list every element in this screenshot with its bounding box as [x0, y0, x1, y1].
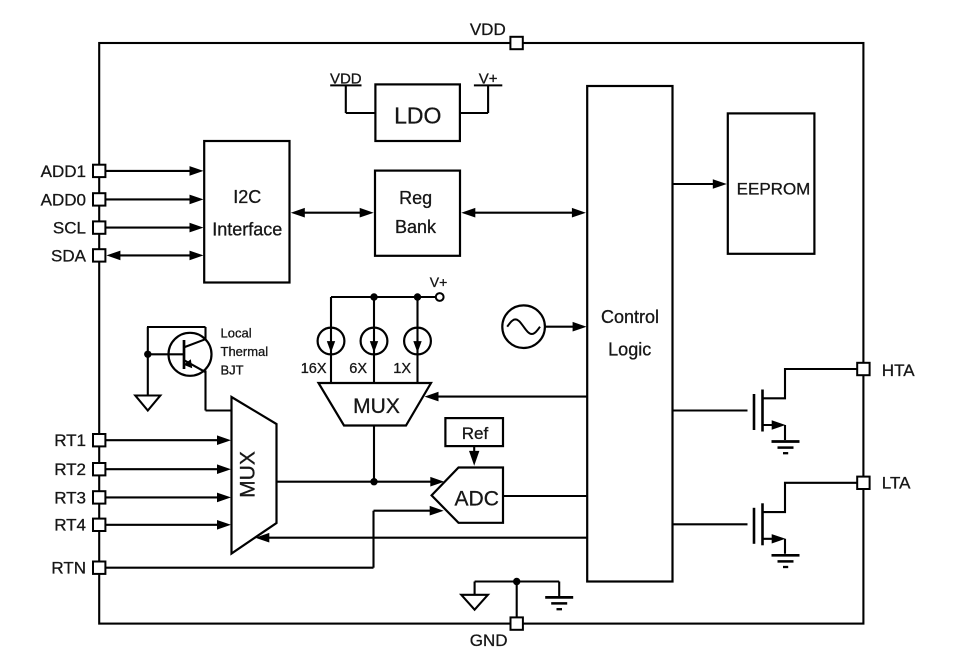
svg-text:RTN: RTN	[51, 559, 86, 578]
svg-text:RT3: RT3	[54, 488, 86, 507]
label Local Thermal BJT	[221, 326, 269, 378]
current source 1X	[393, 328, 431, 377]
wire Ref to ADC	[469, 446, 479, 466]
oscillator OSC1	[502, 305, 545, 348]
current source 6X	[349, 328, 387, 377]
block LDO U1	[375, 84, 460, 141]
svg-text:V+: V+	[430, 274, 448, 290]
wire SCL to I2C	[106, 223, 204, 233]
pin RT2	[54, 460, 105, 479]
block EEPROM U5	[728, 113, 815, 253]
svg-text:EEPROM: EEPROM	[737, 180, 811, 199]
svg-text:MUX: MUX	[353, 395, 400, 418]
svg-text:1X: 1X	[393, 361, 411, 377]
block I2C Interface U2	[204, 141, 289, 283]
svg-text:RT1: RT1	[54, 431, 86, 450]
svg-text:Local: Local	[221, 326, 252, 341]
wire RT4 to input MUX	[106, 520, 231, 530]
block gain MUX U6	[319, 383, 432, 426]
pin SDA	[51, 246, 105, 265]
pin ADD1	[41, 162, 106, 181]
chip boundary	[99, 43, 863, 624]
svg-text:ADC: ADC	[455, 487, 499, 510]
svg-text:16X: 16X	[301, 361, 327, 377]
svg-text:SCL: SCL	[53, 219, 86, 238]
wire RT3 to input MUX	[106, 493, 231, 503]
pin GND	[470, 617, 523, 650]
svg-text:LDO: LDO	[394, 103, 441, 129]
block Ref U8	[445, 418, 503, 446]
svg-text:HTA: HTA	[882, 361, 915, 380]
ground (chassis)	[545, 582, 573, 610]
svg-text:LTA: LTA	[882, 474, 911, 493]
svg-text:RT2: RT2	[54, 460, 86, 479]
pin ADD0	[41, 190, 106, 209]
wire Control Logic to EEPROM	[673, 179, 727, 189]
svg-text:6X: 6X	[349, 361, 367, 377]
svg-text:VDD: VDD	[470, 20, 506, 39]
svg-text:MUX: MUX	[237, 451, 260, 498]
svg-text:Control: Control	[601, 307, 659, 327]
wire oscillator to Control Logic	[545, 322, 587, 332]
block Reg Bank U3	[375, 171, 460, 256]
wire I2C to Reg Bank (bidirectional)	[291, 208, 374, 218]
wire RTN to ADC	[106, 506, 444, 568]
svg-text:I2C: I2C	[233, 187, 261, 207]
svg-text:BJT: BJT	[221, 363, 244, 378]
pin RT3	[54, 488, 105, 507]
svg-text:Thermal: Thermal	[221, 344, 269, 359]
wire RT2 to input MUX	[106, 464, 231, 474]
svg-text:Interface: Interface	[212, 219, 282, 239]
wire ADD0 to I2C	[106, 195, 204, 205]
wire SDA to I2C	[106, 251, 203, 261]
block input MUX U7	[232, 397, 277, 554]
svg-text:ADD0: ADD0	[41, 190, 86, 209]
current source 16X	[301, 328, 345, 377]
pin VDD	[470, 20, 523, 49]
wire gain MUX to ADC node	[276, 426, 444, 487]
wire Reg Bank to Control Logic (bidirectional)	[461, 208, 586, 218]
wire Control Logic to input MUX	[255, 533, 587, 543]
pin LTA	[857, 474, 911, 493]
pin HTA	[857, 361, 915, 380]
wire Control Logic to gain MUX	[425, 392, 588, 402]
pin SCL	[53, 219, 105, 238]
svg-text:Ref: Ref	[462, 424, 489, 443]
svg-text:Bank: Bank	[395, 217, 437, 237]
terminal V+ (LDO output)	[460, 70, 502, 113]
terminal VDD (LDO input)	[330, 70, 375, 113]
svg-text:ADD1: ADD1	[41, 162, 86, 181]
wire RT1 to input MUX	[106, 435, 231, 445]
pin RT4	[54, 516, 105, 535]
pin RT1	[54, 431, 105, 450]
svg-text:SDA: SDA	[51, 246, 87, 265]
node V+ current bus	[331, 274, 447, 383]
svg-text:RT4: RT4	[54, 516, 86, 535]
wire ADC to Control Logic	[503, 495, 587, 497]
block ADC U9	[432, 468, 503, 523]
svg-text:GND: GND	[470, 631, 508, 650]
node analog ground junction	[475, 578, 560, 618]
ground (signal, open triangle)	[461, 582, 488, 610]
transistor Q3 LTA driver with ground	[673, 483, 858, 567]
block Control Logic U4	[587, 86, 672, 582]
svg-text:Logic: Logic	[608, 339, 651, 359]
transistor Q1 local thermal BJT	[144, 327, 232, 411]
wire ADD1 to I2C	[106, 166, 204, 176]
pin RTN	[51, 559, 105, 578]
ground (BJT)	[135, 396, 160, 411]
svg-text:Reg: Reg	[399, 188, 432, 208]
transistor Q2 HTA driver with ground	[673, 369, 858, 453]
